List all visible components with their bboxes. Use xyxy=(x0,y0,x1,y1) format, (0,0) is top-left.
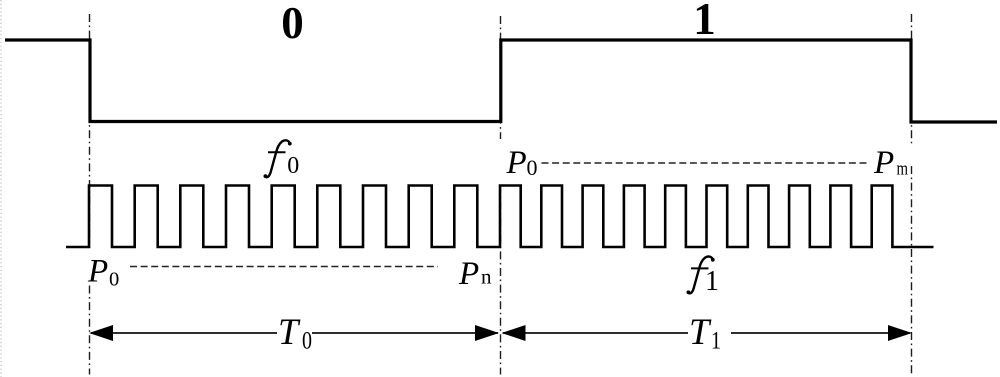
label Pm xyxy=(873,145,908,181)
svg-text:0: 0 xyxy=(527,155,538,180)
dashed span line P0-Pm xyxy=(542,162,869,164)
dash-dot bit boundary line C (x=911.5) xyxy=(911,14,913,375)
svg-text:T: T xyxy=(689,311,712,352)
bit label 1 xyxy=(693,0,716,44)
svg-text:m: m xyxy=(897,158,909,179)
bit label 0 xyxy=(281,0,304,48)
svg-text:0: 0 xyxy=(281,0,304,48)
label T1 xyxy=(689,311,721,354)
T0 interval arrow xyxy=(89,325,499,341)
binary data waveform xyxy=(5,40,997,122)
label P0 right xyxy=(506,145,538,181)
svg-text:P: P xyxy=(458,256,479,292)
scan edge artifact dotted column xyxy=(0,0,2,377)
svg-text:0: 0 xyxy=(287,153,299,179)
svg-text:P: P xyxy=(873,145,894,181)
label Pn xyxy=(458,256,492,292)
svg-text:1: 1 xyxy=(711,326,721,354)
svg-text:T: T xyxy=(278,311,301,352)
dashed span line P0-Pn xyxy=(130,266,438,268)
label T0 xyxy=(278,311,312,354)
svg-text:0: 0 xyxy=(109,269,119,291)
svg-text:1: 1 xyxy=(693,0,716,44)
dash-dot bit boundary line A (x=89.5) xyxy=(89,14,91,375)
T1 interval arrow xyxy=(502,325,913,341)
label f1 xyxy=(687,257,720,297)
svg-text:P: P xyxy=(506,145,527,181)
pulse train f0 (left) and f1 (right) xyxy=(66,186,934,248)
svg-text:P: P xyxy=(87,254,108,290)
label P0 left xyxy=(87,254,119,291)
label f0 xyxy=(264,140,300,178)
dash-dot bit boundary line B (x=500.5) xyxy=(500,16,502,375)
svg-text:0: 0 xyxy=(302,326,312,354)
svg-text:1: 1 xyxy=(705,266,719,297)
svg-text:n: n xyxy=(481,265,492,289)
